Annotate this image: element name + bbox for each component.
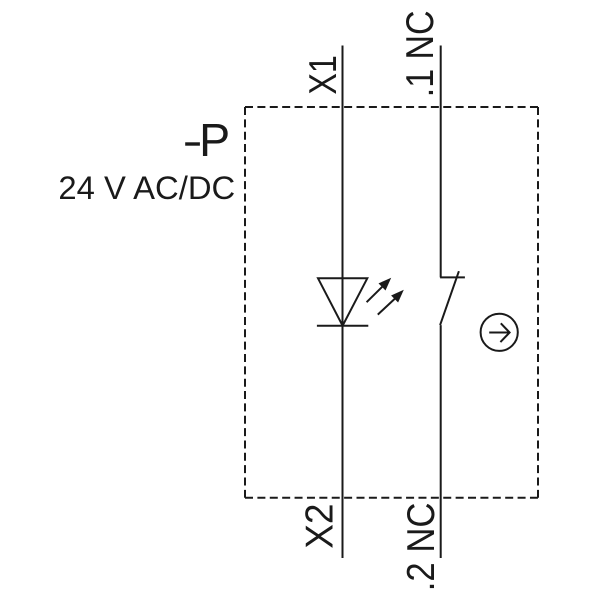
- svg-text:24 V AC/DC: 24 V AC/DC: [58, 169, 235, 206]
- svg-text:.2 NC: .2 NC: [400, 503, 443, 592]
- svg-text:X2: X2: [298, 504, 341, 549]
- actuator symbol circle: [481, 314, 518, 351]
- designator -P: [185, 114, 230, 166]
- wire lamp branch X1-X2: [342, 46, 344, 559]
- LED emission arrow 1: [367, 278, 392, 302]
- svg-text:.1 NC: .1 NC: [399, 11, 442, 98]
- actuator arrow: [489, 323, 509, 342]
- wire contact branch lower .2: [440, 325, 442, 558]
- NC contact lever: [440, 271, 459, 325]
- NC contact fixed terminal tick: [440, 276, 465, 278]
- enclosure dashed outline: [245, 107, 538, 498]
- svg-text:P: P: [199, 114, 230, 166]
- LED lamp: [317, 278, 368, 325]
- svg-text:X1: X1: [302, 55, 345, 95]
- wire contact branch upper .1: [440, 46, 442, 278]
- LED emission arrow 2: [378, 290, 404, 315]
